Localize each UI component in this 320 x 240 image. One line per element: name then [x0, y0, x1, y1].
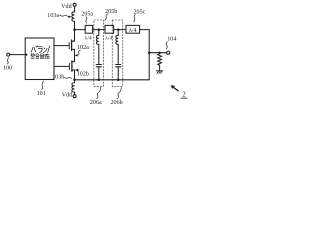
svg-text:2: 2: [182, 91, 186, 99]
wire output: [149, 52, 166, 54]
node 206b bottom: [117, 79, 120, 82]
leader arrow 102b: [75, 69, 79, 72]
line 205b box: [105, 25, 114, 33]
svg-text:λ/4: λ/4: [129, 28, 137, 34]
text line1 バラン/: [31, 46, 49, 53]
node load tap: [158, 51, 161, 54]
capacitor 206a: [96, 65, 101, 80]
inductor 206a: [96, 30, 98, 65]
inductor 103b: [72, 83, 75, 93]
resistor load: [158, 53, 162, 71]
capacitor 206b: [116, 65, 121, 80]
wire right vertical: [148, 30, 150, 80]
line 205c box: [126, 25, 140, 33]
node drain 102a: [73, 28, 76, 31]
resonator 206a dashed box: [94, 20, 104, 86]
figure arrow: [171, 85, 179, 91]
text line2 整合回路: [31, 53, 50, 58]
node at block input: [25, 54, 27, 56]
inductor 206b: [116, 30, 118, 65]
svg-text:206a: 206a: [90, 100, 102, 106]
svg-text:λ/4: λ/4: [105, 36, 112, 42]
wire Vdd to inductor: [74, 6, 76, 11]
svg-text:λ/4: λ/4: [85, 36, 92, 42]
wire input to block: [10, 54, 25, 56]
Vdd terminal top: [73, 3, 76, 6]
wire rail bottom: [75, 79, 150, 81]
block 101 balun/matching circuit: [25, 38, 54, 80]
wire gate lower: [54, 65, 69, 67]
leader 205b: [105, 14, 108, 21]
leader 206b: [117, 87, 121, 98]
ground: [156, 71, 163, 74]
leader arrow 102a: [75, 51, 81, 57]
svg-text:Vdd: Vdd: [62, 93, 73, 99]
leader 101: [42, 81, 44, 89]
wire rail top seg1: [75, 29, 86, 31]
wire rail top seg4: [140, 29, 150, 31]
svg-text:205b: 205b: [105, 9, 117, 15]
port 104 circle: [167, 51, 170, 54]
svg-text:101: 101: [37, 91, 46, 97]
wire inductor to rail: [74, 21, 76, 29]
Vdd terminal bottom: [73, 95, 76, 98]
leader 100: [7, 58, 9, 64]
transistor 102a: [69, 30, 74, 62]
wire rail top seg2: [93, 29, 105, 31]
leader 206a: [96, 87, 100, 98]
wire gate upper: [54, 45, 69, 47]
leader 205a: [86, 17, 87, 24]
port 100 (input terminal circle): [7, 53, 10, 56]
resonator 206b dashed box: [112, 20, 123, 86]
node junction 1: [98, 28, 101, 31]
svg-text:102a: 102a: [77, 45, 89, 51]
wire inductor to Vdd bottom: [74, 92, 76, 94]
svg-text:104: 104: [167, 36, 176, 42]
leader arrow 103a: [60, 15, 72, 18]
node 206a bottom: [98, 79, 101, 82]
leader 205c: [134, 15, 136, 22]
svg-text:206b: 206b: [111, 100, 123, 106]
svg-text:100: 100: [3, 66, 12, 72]
svg-text:205a: 205a: [81, 11, 93, 17]
node output tap: [148, 51, 151, 54]
svg-text:103b: 103b: [52, 75, 64, 81]
inductor 103a: [72, 12, 75, 22]
leader 103b: [64, 77, 72, 78]
figure number underline: [181, 97, 187, 99]
wire rail top seg3: [114, 29, 126, 31]
svg-text:103a: 103a: [47, 13, 59, 19]
node source 102b: [73, 79, 76, 82]
transistor 102b: [69, 61, 74, 83]
svg-text:Vdd: Vdd: [61, 4, 72, 10]
line 205a box: [85, 25, 92, 33]
node junction 2: [117, 28, 120, 31]
svg-text:102b: 102b: [77, 72, 89, 78]
leader 104: [166, 42, 167, 49]
